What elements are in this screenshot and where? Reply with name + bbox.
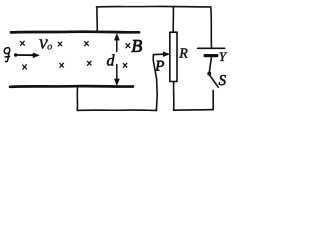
cell Y short thick plate: [205, 54, 217, 57]
velocity arrow shaft: [17, 54, 35, 56]
top plate: [11, 30, 139, 33]
label B: [131, 40, 141, 52]
wire bottom-left rail: [77, 109, 156, 111]
wiper arrowhead: [163, 52, 169, 57]
switch S blade: [209, 75, 218, 88]
label d: [107, 54, 115, 65]
wire cell to switch dot: [209, 58, 211, 72]
velocity arrow dot: [14, 53, 17, 56]
label q: [4, 48, 9, 62]
wire switch bottom lead: [212, 90, 214, 109]
d dimension arrow lower shaft: [116, 65, 118, 81]
wire riser from top plate: [96, 7, 98, 32]
x of B label: [126, 44, 130, 48]
label Y: [220, 52, 228, 61]
d dimension arrow upper shaft: [116, 37, 118, 52]
x row2 c2: [60, 63, 64, 67]
x row2 c1: [23, 65, 27, 69]
resistor top lead: [172, 7, 174, 33]
wire P branch up: [153, 55, 157, 111]
label R: [179, 48, 187, 57]
wire top horizontal: [97, 5, 211, 8]
label v0 v: [39, 39, 48, 48]
x row1 c2: [58, 42, 62, 46]
label P: [155, 61, 164, 71]
resistor bottom lead: [173, 82, 175, 111]
cell Y long thin plate: [198, 47, 225, 49]
wire drop from bottom plate: [76, 88, 78, 111]
velocity arrowhead: [33, 53, 39, 58]
switch pivot dot: [207, 72, 211, 76]
label S: [219, 75, 226, 85]
x row1 c3: [85, 42, 89, 46]
d arrowhead up: [114, 34, 119, 40]
d arrowhead down: [114, 79, 119, 85]
wiper arrow P into resistor: [154, 53, 165, 55]
x row2 c4: [123, 63, 127, 67]
wire bottom-right rail: [174, 109, 214, 112]
bottom plate: [10, 85, 133, 88]
label v0 subscript o: [48, 45, 52, 50]
field cross marks: [20, 41, 129, 69]
resistor R body: [170, 32, 177, 81]
x row2 c3: [87, 61, 91, 65]
x row1 c1: [20, 41, 24, 45]
wire top of cell: [210, 7, 213, 48]
